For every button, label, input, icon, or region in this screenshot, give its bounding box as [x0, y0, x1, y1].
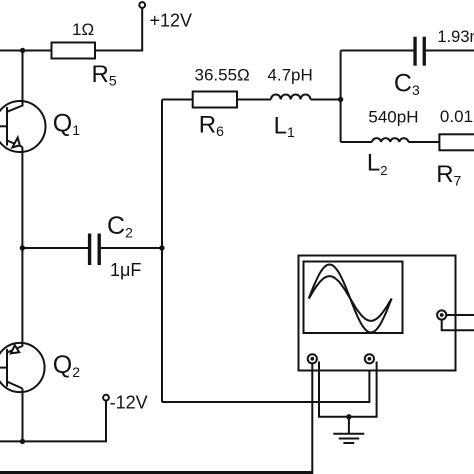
wire: Q1 collector vertical: [22, 51, 24, 107]
transistor Q1: [0, 101, 46, 152]
terminal: -12V: [103, 395, 109, 401]
wire: L2 to R7: [408, 141, 439, 143]
oscilloscope body: [299, 256, 456, 371]
svg-text:R7: R7: [436, 161, 461, 189]
wire: C2 to riser node: [101, 247, 162, 249]
wire: tank node up to C3 row: [340, 51, 342, 100]
oscilloscope screen: [304, 262, 403, 334]
wire: Q2 base stub: [0, 367, 7, 369]
wire: tank node down to L2 row: [340, 100, 342, 143]
wire: bottom feed line to left edge: [0, 471, 313, 474]
node: tank junction: [338, 97, 343, 102]
resistor R7 (clipped at right edge): [439, 134, 474, 150]
node: output junction at C2: [20, 245, 25, 250]
svg-text:1μF: 1μF: [110, 260, 141, 280]
svg-text:L1: L1: [274, 113, 295, 141]
wire: Q1 base stub: [0, 125, 7, 127]
wire: right terminal to edge: [446, 314, 474, 316]
wire: output node to C2: [22, 247, 88, 249]
wire: left terminal down to bottom feed: [311, 363, 313, 472]
resistor R6: [193, 92, 237, 108]
svg-text:L2: L2: [367, 150, 388, 178]
wire: R5 to +12V terminal: [95, 8, 142, 51]
resistor R5: [52, 43, 96, 59]
wire: Q2 collector down: [22, 389, 24, 442]
wire: output node to Q2 emitter: [21, 248, 23, 347]
node: ground junction: [346, 414, 351, 419]
svg-text:R6: R6: [199, 112, 224, 140]
wire: to C3 left plate: [341, 50, 414, 52]
wire: R6 to L1: [237, 99, 271, 101]
wire: scope signal feed from riser to right terminal: [162, 364, 369, 402]
transistor Q2: [0, 343, 45, 392]
scope trace: outer sine: [309, 265, 392, 333]
node: R5 / Q1 collector junction: [20, 48, 25, 53]
scope trace: inner sine: [309, 276, 392, 321]
svg-text:Q1: Q1: [53, 109, 80, 138]
capacitor C3: [413, 37, 426, 66]
wire: -12V rail: [0, 400, 106, 441]
wire: L1 to tank node: [311, 99, 341, 101]
svg-text:1.93nF: 1.93nF: [437, 28, 474, 46]
wire: C3 right plate to edge: [426, 50, 474, 52]
inductor L2: [372, 138, 408, 142]
svg-text:Q2: Q2: [53, 351, 80, 380]
terminal: +12V: [139, 2, 145, 8]
wire: right terminal lower stub to edge: [442, 320, 474, 331]
svg-text:540pH: 540pH: [368, 107, 418, 126]
svg-text:R5: R5: [92, 61, 117, 89]
wire: L2 left: [341, 141, 372, 143]
scope terminal: bottom right: [365, 354, 374, 363]
scope terminal: right side: [437, 310, 446, 319]
svg-text:4.7pH: 4.7pH: [267, 65, 312, 84]
svg-text:C2: C2: [107, 212, 133, 241]
wire: riser x=162 from R6 down to scope feed: [161, 100, 163, 403]
svg-text:1Ω: 1Ω: [72, 20, 94, 39]
scope terminal: bottom left: [308, 354, 317, 363]
node: -12V rail junction: [20, 439, 25, 444]
svg-text:0.01Ω: 0.01Ω: [440, 107, 474, 126]
wire: riser to R6: [162, 99, 193, 101]
inductor L1: [271, 95, 311, 100]
capacitor C2: [88, 234, 101, 266]
svg-text:+12V: +12V: [150, 11, 193, 31]
node: C2 right junction: [159, 245, 164, 250]
ground symbol: [333, 417, 364, 443]
svg-text:36.55Ω: 36.55Ω: [195, 65, 250, 84]
svg-text:C3: C3: [394, 69, 420, 98]
wire: ground loop from both terminals: [319, 362, 377, 417]
wire: left rail to R5: [0, 50, 52, 52]
svg-text:-12V: -12V: [110, 392, 148, 412]
wire: Q1 emitter to output node: [21, 147, 23, 248]
